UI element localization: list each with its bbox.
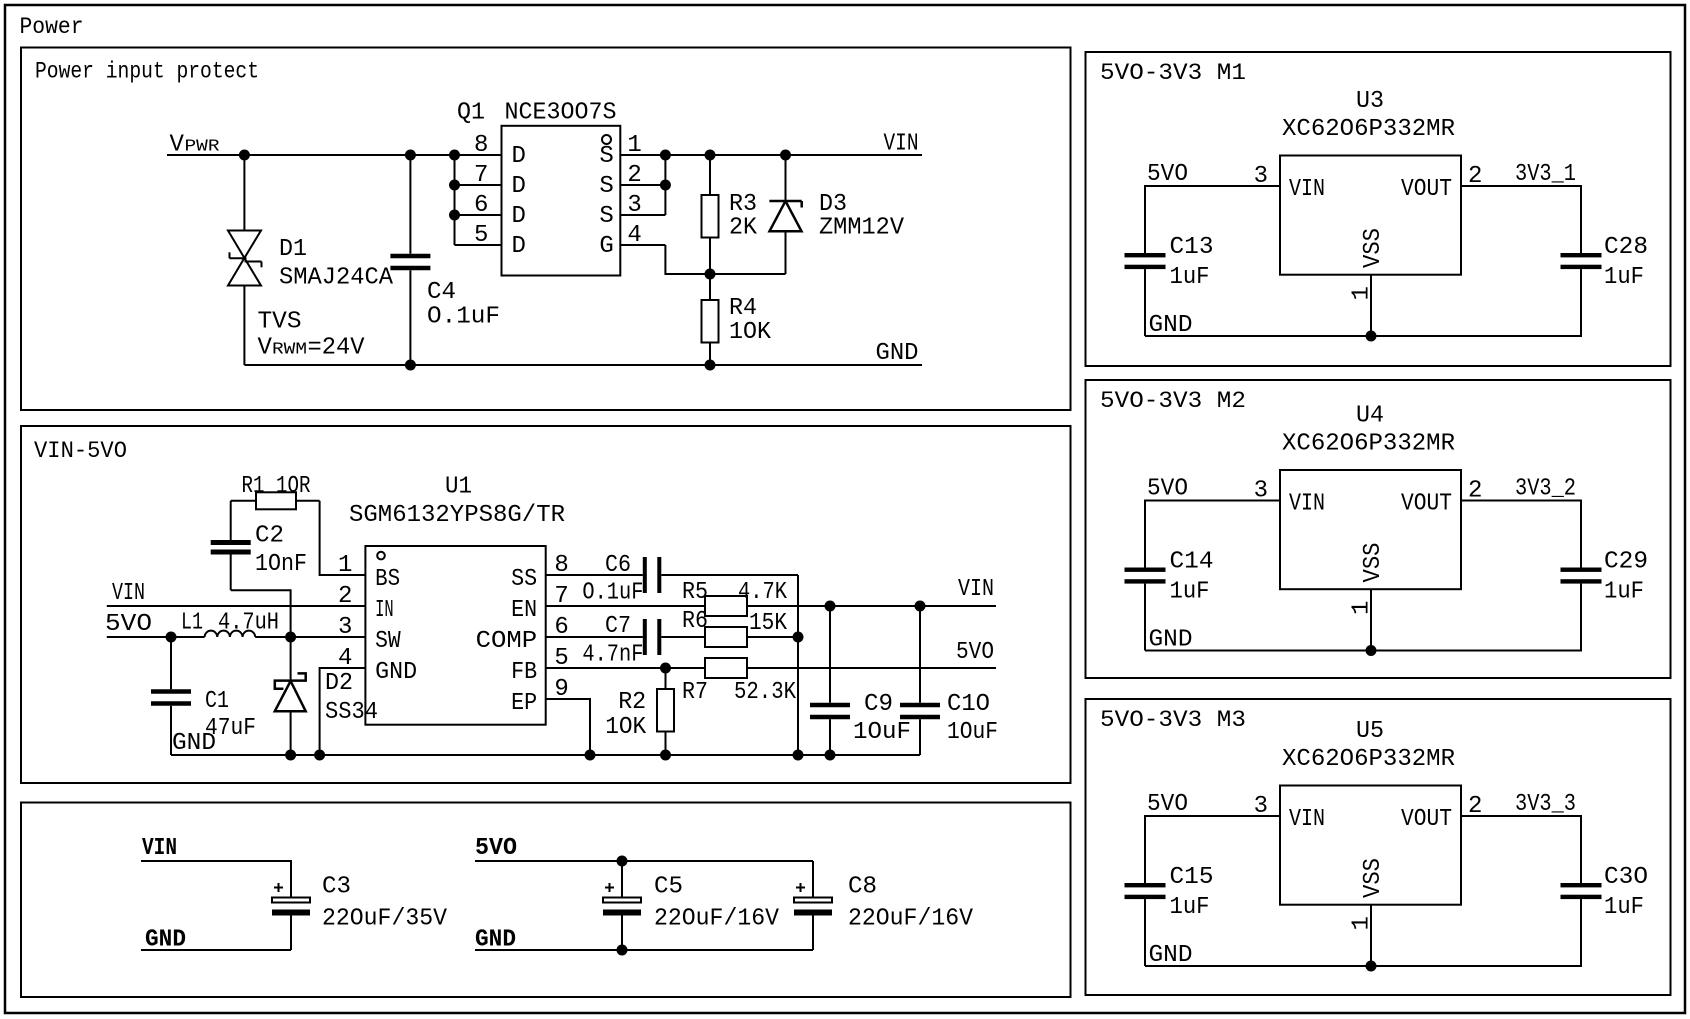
svg-text:NCE3OO7S: NCE3OO7S bbox=[505, 100, 617, 127]
svg-text:SW: SW bbox=[375, 628, 401, 655]
svg-text:3V3_2: 3V3_2 bbox=[1515, 476, 1576, 503]
svg-text:SS34: SS34 bbox=[325, 699, 378, 726]
svg-text:SS: SS bbox=[511, 566, 537, 593]
svg-text:3V3_1: 3V3_1 bbox=[1515, 161, 1576, 188]
svg-text:EN: EN bbox=[511, 597, 537, 624]
svg-text:4.7K: 4.7K bbox=[738, 579, 788, 606]
svg-text:VIN: VIN bbox=[1289, 176, 1325, 203]
svg-text:1uF: 1uF bbox=[1604, 264, 1644, 291]
svg-text:4.7uH: 4.7uH bbox=[218, 610, 279, 637]
svg-text:7: 7 bbox=[474, 162, 488, 189]
svg-text:L1: L1 bbox=[181, 610, 203, 637]
svg-text:SMAJ24CA: SMAJ24CA bbox=[279, 265, 394, 292]
svg-text:5VO-3V3 M3: 5VO-3V3 M3 bbox=[1100, 707, 1246, 733]
svg-text:22OuF/16V: 22OuF/16V bbox=[654, 906, 780, 933]
svg-text:C14: C14 bbox=[1170, 549, 1214, 576]
svg-text:VIN: VIN bbox=[1289, 806, 1325, 833]
svg-text:EP: EP bbox=[511, 690, 537, 717]
svg-text:22OuF/16V: 22OuF/16V bbox=[848, 906, 974, 933]
svg-text:C7: C7 bbox=[605, 613, 631, 640]
svg-text:1OK: 1OK bbox=[729, 319, 772, 346]
svg-text:1OuF: 1OuF bbox=[853, 719, 911, 746]
svg-text:R6: R6 bbox=[682, 608, 708, 635]
svg-text:U3: U3 bbox=[1356, 88, 1384, 115]
svg-text:SGM6132YPS8G/TR: SGM6132YPS8G/TR bbox=[349, 502, 565, 529]
svg-text:GND: GND bbox=[1149, 942, 1193, 969]
svg-text:8: 8 bbox=[474, 132, 488, 159]
svg-text:S: S bbox=[599, 173, 613, 200]
svg-text:C1O: C1O bbox=[947, 691, 990, 718]
svg-text:XC62O6P332MR: XC62O6P332MR bbox=[1282, 116, 1455, 143]
svg-text:C3O: C3O bbox=[1604, 864, 1648, 891]
svg-text:RWM: RWM bbox=[272, 341, 307, 360]
svg-text:D: D bbox=[512, 173, 526, 200]
svg-text:VOUT: VOUT bbox=[1401, 491, 1452, 518]
svg-text:1OnF: 1OnF bbox=[255, 551, 307, 578]
svg-text:IN: IN bbox=[375, 597, 394, 624]
svg-text:S: S bbox=[599, 143, 613, 170]
svg-text:GND: GND bbox=[1149, 312, 1193, 339]
svg-text:COMP: COMP bbox=[476, 628, 538, 655]
svg-text:D2: D2 bbox=[325, 670, 353, 697]
svg-text:C3: C3 bbox=[322, 874, 351, 901]
svg-text:3V3_3: 3V3_3 bbox=[1515, 791, 1576, 818]
svg-text:1OK: 1OK bbox=[605, 714, 647, 741]
svg-text:VIN: VIN bbox=[142, 835, 177, 862]
svg-text:VIN: VIN bbox=[884, 131, 919, 158]
svg-text:5VO: 5VO bbox=[1147, 161, 1188, 188]
svg-text:R5: R5 bbox=[682, 579, 708, 606]
svg-text:GND: GND bbox=[375, 659, 417, 686]
svg-text:3: 3 bbox=[338, 614, 352, 641]
svg-text:PWR: PWR bbox=[185, 138, 220, 157]
svg-text:R2: R2 bbox=[618, 689, 646, 716]
svg-text:1uF: 1uF bbox=[1170, 264, 1210, 291]
svg-text:VIN: VIN bbox=[958, 576, 994, 603]
svg-text:D: D bbox=[512, 203, 526, 230]
svg-text:U5: U5 bbox=[1356, 718, 1384, 745]
svg-text:VSS: VSS bbox=[1360, 858, 1387, 898]
svg-text:VIN: VIN bbox=[1289, 491, 1325, 518]
svg-text:VIN-5VO: VIN-5VO bbox=[34, 438, 127, 464]
svg-text:R7: R7 bbox=[682, 679, 708, 706]
svg-text:4: 4 bbox=[627, 222, 641, 249]
svg-text:C15: C15 bbox=[1170, 864, 1214, 891]
svg-text:1OuF: 1OuF bbox=[947, 719, 998, 746]
svg-text:1uF: 1uF bbox=[1170, 579, 1210, 606]
svg-text:S: S bbox=[599, 203, 613, 230]
svg-text:D: D bbox=[512, 143, 526, 170]
svg-text:C28: C28 bbox=[1604, 234, 1648, 261]
svg-text:3: 3 bbox=[627, 192, 641, 219]
svg-text:R1 1OR: R1 1OR bbox=[242, 473, 311, 500]
svg-text:2: 2 bbox=[338, 583, 352, 610]
svg-text:Q1: Q1 bbox=[457, 100, 485, 127]
svg-text:5VO: 5VO bbox=[956, 639, 994, 666]
svg-text:1uF: 1uF bbox=[1604, 579, 1644, 606]
svg-text:Power: Power bbox=[20, 14, 84, 40]
svg-text:C29: C29 bbox=[1604, 549, 1648, 576]
svg-text:C4: C4 bbox=[427, 279, 456, 306]
svg-text:V: V bbox=[258, 335, 273, 362]
svg-text:D1: D1 bbox=[279, 236, 307, 263]
svg-text:1uF: 1uF bbox=[1170, 894, 1210, 921]
svg-text:Power input protect: Power input protect bbox=[35, 59, 259, 85]
svg-text:C9: C9 bbox=[864, 691, 893, 718]
svg-text:D: D bbox=[512, 233, 526, 260]
svg-text:GND: GND bbox=[1149, 627, 1193, 654]
svg-text:GND: GND bbox=[876, 340, 919, 367]
svg-text:C8: C8 bbox=[848, 874, 877, 901]
svg-text:GND: GND bbox=[172, 730, 216, 757]
svg-text:1: 1 bbox=[627, 132, 641, 159]
svg-text:5VO-3V3 M1: 5VO-3V3 M1 bbox=[1100, 60, 1246, 86]
svg-text:C2: C2 bbox=[255, 523, 284, 550]
svg-text:5: 5 bbox=[474, 222, 488, 249]
svg-text:ZMM12V: ZMM12V bbox=[819, 215, 905, 242]
svg-text:5VO-3V3 M2: 5VO-3V3 M2 bbox=[1100, 388, 1246, 414]
svg-text:52.3K: 52.3K bbox=[734, 679, 797, 706]
svg-text:VIN: VIN bbox=[112, 580, 145, 607]
svg-text:TVS: TVS bbox=[258, 309, 302, 336]
svg-text:VSS: VSS bbox=[1360, 228, 1387, 268]
svg-text:=24V: =24V bbox=[308, 335, 366, 362]
svg-text:VSS: VSS bbox=[1360, 543, 1387, 583]
svg-text:XC62O6P332MR: XC62O6P332MR bbox=[1282, 431, 1455, 458]
svg-text:VOUT: VOUT bbox=[1401, 176, 1452, 203]
svg-text:U1: U1 bbox=[445, 474, 472, 501]
svg-text:G: G bbox=[599, 233, 613, 260]
svg-text:5VO: 5VO bbox=[1147, 791, 1188, 818]
svg-text:6: 6 bbox=[474, 192, 488, 219]
svg-text:BS: BS bbox=[375, 566, 400, 593]
svg-text:C1: C1 bbox=[205, 688, 229, 715]
svg-text:VOUT: VOUT bbox=[1401, 806, 1452, 833]
svg-text:5VO: 5VO bbox=[475, 835, 517, 862]
svg-text:C6: C6 bbox=[605, 552, 631, 579]
svg-text:4: 4 bbox=[338, 645, 352, 672]
svg-text:U4: U4 bbox=[1356, 403, 1384, 430]
svg-text:2: 2 bbox=[627, 162, 641, 189]
svg-text:4.7nF: 4.7nF bbox=[582, 642, 643, 669]
svg-text:C13: C13 bbox=[1170, 234, 1214, 261]
svg-text:2K: 2K bbox=[729, 215, 758, 242]
svg-text:1uF: 1uF bbox=[1604, 894, 1644, 921]
svg-text:O.1uF: O.1uF bbox=[582, 580, 643, 607]
svg-text:22OuF/35V: 22OuF/35V bbox=[322, 906, 448, 933]
svg-text:15K: 15K bbox=[749, 610, 788, 637]
svg-text:XC62O6P332MR: XC62O6P332MR bbox=[1282, 746, 1455, 773]
svg-text:1: 1 bbox=[338, 552, 352, 579]
svg-text:5VO: 5VO bbox=[1147, 476, 1188, 503]
svg-text:R4: R4 bbox=[729, 295, 757, 322]
svg-text:O.1uF: O.1uF bbox=[427, 304, 500, 331]
svg-text:5VO: 5VO bbox=[105, 611, 152, 638]
svg-text:C5: C5 bbox=[654, 874, 683, 901]
svg-text:FB: FB bbox=[511, 659, 537, 686]
